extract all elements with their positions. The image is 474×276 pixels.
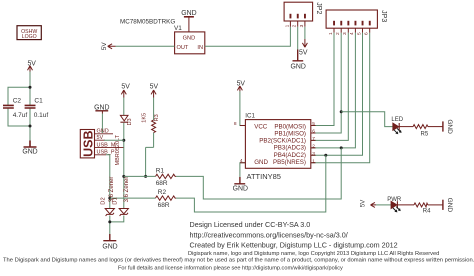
svg-text:PWR: PWR: [387, 197, 402, 203]
svg-text:MC78M05BDTRKG: MC78M05BDTRKG: [120, 18, 175, 25]
wire 5V to R3: [153, 98, 155, 121]
node R2 line left: [108, 197, 111, 200]
wire 5V to caps: [8, 72, 30, 141]
svg-text:4: 4: [349, 32, 355, 35]
wire JP3 pin4 to PB3: [311, 33, 356, 148]
svg-text:D2: D2: [100, 197, 106, 204]
svg-text:The Digispark and Digistump na: The Digispark and Digistump names and lo…: [3, 258, 474, 264]
svg-text:1: 1: [284, 24, 290, 27]
svg-text:http://creativecommons.org/lic: http://creativecommons.org/licenses/by-n…: [190, 230, 348, 239]
supply 5V (D3): [121, 83, 130, 97]
capacitor C2: [3, 98, 27, 120]
svg-text:6: 6: [312, 129, 315, 135]
svg-text:3: 3: [342, 32, 348, 35]
OSHW logo: [17, 26, 41, 41]
svg-text:PB2(SCK/ADC1): PB2(SCK/ADC1): [259, 138, 306, 145]
wire USB_M to R3/R1: [146, 133, 154, 177]
svg-text:LOGO: LOGO: [22, 34, 37, 40]
svg-text:0.1uf: 0.1uf: [34, 112, 49, 119]
svg-text:GND: GND: [254, 159, 268, 166]
svg-text:4.7uf: 4.7uf: [13, 112, 28, 119]
wire D3 cathode down to zener D1: [123, 123, 125, 209]
svg-text:GND: GND: [22, 148, 37, 155]
wire PWR LED to R4: [397, 204, 414, 206]
zener diode D1: [112, 177, 129, 216]
svg-text:JP2: JP2: [315, 2, 322, 14]
wire zeners to ground: [110, 216, 124, 235]
ground (V1): [181, 10, 196, 32]
ground (USB): [94, 104, 109, 111]
svg-text:1K5: 1K5: [142, 113, 148, 123]
svg-text:R5: R5: [421, 132, 429, 138]
zener diode D2: [100, 177, 115, 216]
svg-text:2: 2: [335, 32, 341, 35]
wire 5V to VCC: [240, 91, 246, 125]
svg-text:IN: IN: [197, 45, 203, 51]
wire JP2 pin2 to ground: [297, 27, 299, 50]
connector USB: [80, 129, 124, 158]
svg-text:R2: R2: [158, 189, 167, 196]
svg-text:7: 7: [312, 136, 315, 142]
svg-text:GND: GND: [446, 198, 453, 213]
svg-text:USB_M: USB_M: [97, 142, 116, 148]
node R1 line left: [122, 175, 125, 178]
supply 5V (JP2 pin3): [299, 27, 308, 57]
wire USB_P down: [106, 155, 110, 209]
svg-text:3: 3: [299, 24, 305, 27]
wire JP3 pin1 to PB0: [311, 33, 334, 126]
svg-text:PB3(ADC3): PB3(ADC3): [274, 145, 306, 152]
wire LED branch: [341, 112, 393, 127]
svg-text:PB0(MOSI): PB0(MOSI): [274, 123, 306, 130]
svg-text:R3: R3: [154, 114, 160, 121]
svg-text:1: 1: [312, 158, 315, 164]
wire R5 to ground: [428, 126, 443, 128]
wire JP3 pin3 to PB2: [311, 33, 349, 141]
svg-text:5V: 5V: [360, 199, 367, 207]
regulator V1: [175, 32, 205, 54]
wire V1 IN to JP2 pin1: [205, 27, 291, 47]
ground (IC): [233, 177, 248, 193]
svg-text:GND: GND: [291, 63, 306, 70]
supply 5V (PWR): [360, 199, 376, 208]
supply 5V arrow (V1 OUT): [101, 42, 116, 51]
resistor R4: [414, 203, 431, 215]
svg-text:2: 2: [292, 24, 298, 27]
ground (zeners): [102, 234, 117, 250]
svg-text:V1: V1: [174, 25, 182, 32]
svg-text:4: 4: [240, 158, 243, 164]
capacitor C1: [25, 98, 49, 120]
ground (LED): [443, 119, 453, 134]
connector JP2: [284, 2, 322, 27]
svg-text:PB1(MISO): PB1(MISO): [274, 130, 306, 137]
svg-text:MBR0520LT: MBR0520LT: [115, 134, 121, 165]
resistor R1: [156, 168, 177, 187]
node PB4/R2: [324, 154, 327, 157]
svg-text:5: 5: [312, 121, 315, 127]
svg-text:5V: 5V: [27, 60, 36, 67]
resistor R3: [142, 113, 161, 133]
wire USB 5V pin to D3 column: [104, 139, 124, 141]
node USB 5V / D3: [122, 139, 125, 142]
svg-text:IC1: IC1: [245, 113, 255, 120]
node cap bottom: [29, 125, 32, 128]
svg-text:PB4(ADC2): PB4(ADC2): [274, 152, 306, 159]
connector JP3: [326, 10, 387, 35]
svg-text:5V: 5V: [237, 80, 246, 87]
svg-text:PB5(NRES): PB5(NRES): [273, 159, 306, 166]
svg-text:GND: GND: [183, 35, 195, 41]
svg-text:5: 5: [356, 32, 362, 35]
node PB3/R1: [340, 146, 343, 149]
svg-text:68R: 68R: [158, 202, 170, 209]
svg-text:D3: D3: [127, 118, 133, 125]
svg-text:3: 3: [312, 151, 315, 157]
wire USB GND pin: [101, 114, 103, 134]
LED PWR: [391, 201, 401, 212]
wire LED to R5: [399, 126, 413, 128]
svg-text:D1: D1: [112, 197, 118, 204]
svg-text:5V: 5V: [97, 135, 104, 141]
supply 5V (caps): [27, 60, 36, 71]
wire V1 OUT: [116, 45, 175, 47]
svg-text:Digispark name, logo and Digis: Digispark name, logo and Digistump name,…: [188, 251, 439, 257]
svg-text:5V: 5V: [150, 83, 159, 90]
svg-text:GND: GND: [181, 10, 196, 17]
supply 5V (R3): [150, 83, 159, 97]
wire 5V to D3: [123, 98, 125, 116]
wire JP3 pin2 to PB1: [311, 33, 341, 133]
svg-text:3.6 Zener: 3.6 Zener: [124, 177, 130, 203]
wire R2 left: [110, 197, 156, 199]
svg-text:OUT: OUT: [177, 45, 189, 51]
node cap top: [29, 86, 32, 89]
svg-text:1: 1: [328, 32, 334, 35]
svg-text:2: 2: [312, 143, 315, 149]
supply 5V (IC VCC): [237, 80, 246, 91]
svg-text:USB: USB: [82, 130, 96, 156]
wire PB3 to R1: [176, 148, 341, 199]
svg-text:5V: 5V: [101, 42, 108, 51]
svg-text:68R: 68R: [156, 180, 168, 187]
LED: [393, 123, 402, 134]
IC IC1 ATTINY85: [234, 113, 315, 182]
svg-text:For full details and license i: For full details and license information…: [118, 265, 343, 271]
wire R4 to ground: [428, 204, 443, 206]
svg-text:C2: C2: [13, 98, 22, 105]
resistor R2: [156, 189, 177, 209]
license text: [3, 220, 474, 271]
resistor R5: [413, 125, 429, 138]
svg-text:8: 8: [234, 121, 237, 127]
svg-text:GND: GND: [102, 243, 117, 250]
svg-text:ATTINY85: ATTINY85: [247, 172, 281, 181]
ground (PWR): [443, 198, 453, 213]
svg-text:C1: C1: [34, 98, 43, 105]
wire PB4 to R2: [176, 155, 326, 212]
svg-text:Design Licensed under CC-BY-SA: Design Licensed under CC-BY-SA 3.0: [190, 220, 311, 229]
svg-text:6: 6: [364, 32, 370, 35]
svg-text:LED: LED: [391, 117, 403, 123]
wire R1 left: [124, 175, 156, 177]
svg-text:R4: R4: [423, 209, 431, 215]
node zener join: [108, 220, 111, 223]
svg-text:GND: GND: [97, 129, 109, 135]
wire pin stubs IC: [240, 126, 316, 163]
svg-text:USB_P: USB_P: [97, 149, 115, 155]
svg-text:VCC: VCC: [254, 123, 268, 130]
svg-text:GND: GND: [233, 186, 248, 193]
wire GND pin IC: [240, 163, 246, 177]
node PB1/LED: [340, 110, 343, 113]
svg-text:5V: 5V: [121, 83, 130, 90]
wire 5V to PWR LED: [376, 204, 391, 206]
node R1 line mid: [144, 175, 147, 178]
ground (caps): [22, 141, 37, 156]
svg-text:GND: GND: [446, 119, 453, 134]
svg-text:Created by Erik Kettenbugr, Di: Created by Erik Kettenbugr, Digistump LL…: [190, 241, 398, 250]
svg-text:5V: 5V: [299, 49, 308, 56]
wire JP3 pin5 to PB4: [311, 33, 363, 156]
svg-text:JP3: JP3: [380, 10, 387, 22]
wire JP3 pin6 to PB5: [311, 33, 370, 163]
ground (JP2): [291, 50, 306, 71]
diode D3: [115, 115, 133, 165]
